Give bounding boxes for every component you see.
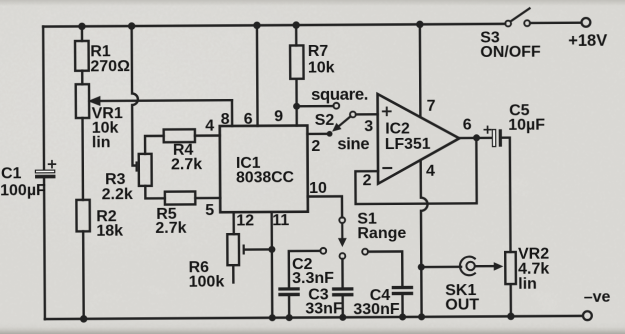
svg-text:Range: Range: [357, 225, 406, 242]
resistor R4: [164, 129, 203, 173]
svg-text:10µF: 10µF: [508, 117, 545, 134]
wire contact to C3: [341, 259, 344, 287]
node C4 bottom rail junction: [399, 313, 406, 320]
wire square branch: [297, 105, 334, 108]
R3 wiper T-bar: [135, 163, 137, 171]
svg-text:10: 10: [309, 180, 327, 197]
svg-text:12: 12: [236, 212, 254, 229]
svg-text:6: 6: [244, 111, 253, 128]
svg-text:lin: lin: [92, 134, 111, 151]
svg-text:LF351: LF351: [385, 136, 431, 153]
capacitor C1: [0, 161, 56, 200]
wire C5 to VR2: [502, 138, 511, 252]
wire C4 to bottom rail: [401, 295, 404, 317]
socket SK1: [445, 257, 479, 314]
svg-text:8: 8: [221, 111, 230, 128]
switch S1 contact C4: [362, 249, 368, 255]
wire VR1 wiper to IC1 pin 8: [231, 100, 234, 126]
switch S2 square contact: [333, 103, 339, 109]
wire C2 to bottom rail: [288, 296, 291, 317]
wire SK1 to VR2 wiper with arrow: [475, 262, 503, 271]
node pin4 / SK1 junction: [418, 264, 425, 271]
resistor R7: [290, 43, 335, 79]
node top rail / R7 junction: [292, 21, 299, 28]
svg-text:–ve: –ve: [584, 289, 611, 306]
node output junction: [473, 134, 480, 141]
resistor R3: [101, 154, 151, 203]
wire contact to C2: [289, 251, 321, 287]
svg-text:18k: 18k: [96, 223, 123, 240]
wire contact to C4: [368, 251, 402, 286]
svg-text:5: 5: [205, 202, 214, 219]
terminal +18V: [568, 18, 607, 50]
wire pin 6 to top rail: [256, 25, 259, 125]
svg-text:4: 4: [205, 118, 214, 135]
node R2 bottom rail junction: [80, 315, 87, 322]
resistor R1: [75, 41, 130, 76]
wire R2 to bottom rail: [82, 231, 85, 318]
capacitor C5: [484, 102, 545, 147]
node pin4 bottom rail junction: [418, 313, 425, 320]
switch S1 contact C3: [340, 253, 346, 259]
svg-text:+18V: +18V: [568, 32, 607, 50]
switch S3 lever: [511, 8, 530, 21]
svg-text:2: 2: [363, 172, 372, 189]
svg-text:square.: square.: [311, 85, 368, 104]
wire R1 branch top: [81, 26, 83, 41]
wire R4 to IC1 pin 4: [195, 134, 220, 137]
wire IC1 pin 12 to R6: [232, 212, 235, 234]
wire left vertical C1 branch: [43, 27, 45, 319]
node top rail / R3 tap junction: [128, 22, 135, 29]
wire R5 to IC1 pin 5: [195, 197, 220, 200]
wire R3 tap vertical with hop over wiper wire: [132, 26, 139, 166]
svg-text:OUT: OUT: [445, 297, 479, 314]
svg-text:100µF: 100µF: [0, 182, 46, 199]
wire S2 pole to IC2 + input: [356, 113, 378, 116]
wire R7 to square node and IC1 pin 9: [295, 79, 298, 126]
svg-text:2.7k: 2.7k: [171, 156, 202, 173]
svg-text:2.7k: 2.7k: [155, 220, 186, 237]
node pin 11 bottom rail junction: [269, 314, 276, 321]
svg-text:6: 6: [463, 117, 472, 134]
node VR2 bottom rail junction: [507, 313, 514, 320]
svg-text:4: 4: [426, 163, 435, 180]
wire VR2 to bottom rail: [509, 284, 512, 316]
switch S2 lever with arrow: [332, 116, 351, 131]
terminal -ve: [583, 289, 611, 320]
svg-text:S2: S2: [315, 112, 335, 129]
svg-text:2.2k: 2.2k: [102, 186, 133, 203]
svg-text:7: 7: [427, 98, 436, 115]
svg-text:ON/OFF: ON/OFF: [480, 44, 541, 61]
wire VR1 to R2: [81, 118, 84, 200]
potentiometer VR1: [76, 83, 233, 151]
svg-text:10k: 10k: [308, 59, 335, 76]
svg-text:11: 11: [272, 212, 289, 229]
svg-text:330nF: 330nF: [353, 301, 400, 318]
wire top rail to R7: [295, 25, 298, 45]
node R6 wiper / pin 11 junction: [268, 246, 275, 253]
resistor R5: [155, 191, 195, 236]
wire top supply rail: [43, 24, 505, 27]
wire bottom -ve rail: [45, 316, 582, 319]
preset R6: [188, 234, 272, 291]
wire R3 bottom to R5: [145, 186, 165, 199]
switch S3 left contact: [505, 21, 511, 27]
potentiometer VR2: [505, 246, 549, 293]
wire R1 to VR1: [81, 71, 83, 84]
svg-text:270Ω: 270Ω: [90, 58, 130, 75]
resistor R2: [76, 200, 123, 240]
node sine: [327, 131, 333, 137]
wire IC1 pin 2 sine output: [307, 133, 329, 136]
node C3 bottom rail junction: [339, 314, 346, 321]
node C2 bottom rail junction: [286, 314, 293, 321]
svg-text:33nF: 33nF: [305, 300, 343, 317]
svg-text:3: 3: [364, 118, 373, 135]
op-amp IC1 8038CC body: [220, 126, 308, 213]
svg-text:R7: R7: [308, 43, 329, 60]
svg-text:3.3nF: 3.3nF: [292, 270, 334, 287]
wire IC1 pin 11 to bottom rail: [270, 212, 273, 318]
node pin 7 top rail junction: [416, 21, 423, 28]
op-amp IC2 LF351: [378, 94, 460, 184]
wire pin4 node to bottom rail: [420, 267, 423, 317]
switch S1 contact C2: [320, 248, 326, 254]
capacitor C3: [305, 286, 353, 317]
svg-text:9: 9: [274, 108, 283, 125]
wire IC1 pin 10 to S1 pole: [308, 196, 342, 217]
wire IC2 pin 4 down with hop over feedback: [421, 160, 428, 267]
svg-text:lin: lin: [518, 276, 537, 293]
wire IC2 pin 7 to top rail: [419, 24, 422, 116]
switch S2 pole contact: [350, 112, 356, 118]
wire R3 top to R4: [145, 136, 164, 154]
node top rail / R1 junction: [78, 23, 85, 30]
capacitor C2: [278, 256, 334, 296]
wire IC2 output: [459, 137, 492, 140]
wire S3 to +18V terminal: [530, 22, 580, 25]
svg-text:100k: 100k: [189, 274, 225, 291]
node top rail / pin6 junction: [253, 22, 260, 29]
svg-text:8038CC: 8038CC: [236, 169, 294, 186]
capacitor C4: [353, 286, 413, 318]
svg-text:sine: sine: [337, 135, 369, 153]
node square branch junction: [293, 103, 300, 110]
switch S3 right contact: [524, 20, 530, 26]
switch S1 selector arrow: [338, 223, 347, 247]
wire IC2 inverting input loop: [355, 138, 476, 204]
wire pin4 node to SK1: [421, 266, 461, 269]
svg-text:C1: C1: [1, 165, 22, 182]
switch S1 pole contact: [339, 217, 345, 223]
svg-text:2: 2: [311, 138, 320, 155]
wire C3 to bottom rail: [341, 296, 344, 317]
